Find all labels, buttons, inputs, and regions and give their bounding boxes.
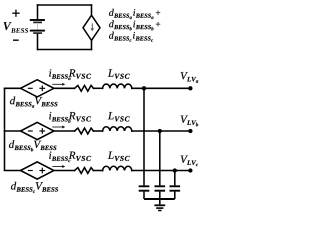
minus sign inside source b xyxy=(28,130,32,132)
minus sign of VBESS xyxy=(13,39,19,41)
plus sign of VBESS xyxy=(12,10,19,17)
plus sign inside source b xyxy=(40,130,45,132)
current arrow iBESSa xyxy=(52,83,65,86)
wire bus to source c xyxy=(5,170,21,172)
label dBESSa VBESS xyxy=(10,97,57,108)
dependent voltage source c (diamond) xyxy=(21,162,54,179)
label RVSC a xyxy=(69,69,91,78)
capacitor phase b xyxy=(155,186,166,199)
wire left side DC loop lower xyxy=(37,34,39,50)
inductor LVSC c xyxy=(103,166,132,170)
wire bottom of DC loop xyxy=(38,49,92,51)
wire left side DC loop upper xyxy=(37,5,39,19)
ground xyxy=(154,199,165,211)
label RVSC b xyxy=(69,112,91,121)
label dBESSb VBESS xyxy=(9,140,56,151)
label LVSC b xyxy=(108,112,130,121)
label VBESS xyxy=(4,22,29,33)
dependent voltage source b (diamond) xyxy=(21,122,54,139)
plus sign inside source c xyxy=(40,170,45,172)
wire top of DC loop xyxy=(38,4,92,6)
wire right side DC loop lower xyxy=(91,40,93,49)
label iBESSb xyxy=(49,112,70,123)
label iBESSc xyxy=(49,152,70,163)
resistor RVSC c xyxy=(75,168,94,174)
wire resistor to inductor a xyxy=(93,87,102,89)
capacitor phase a xyxy=(139,186,150,199)
current arrow iBESSc xyxy=(52,165,65,168)
label iBESSa xyxy=(49,69,70,80)
wire phase b drop to capacitor xyxy=(159,131,161,185)
arrow inside current source xyxy=(91,23,95,31)
wire inductor a to terminal xyxy=(132,87,191,89)
wire source b to resistor xyxy=(54,130,75,132)
junction node c xyxy=(173,168,177,172)
wire phase a drop to capacitor xyxy=(143,88,145,185)
wire inductor c to terminal xyxy=(132,170,191,172)
terminal node a xyxy=(188,86,192,90)
battery VBESS xyxy=(30,20,45,33)
label VLVc xyxy=(181,156,198,167)
resistor RVSC b xyxy=(75,128,94,134)
wire inductor b to terminal xyxy=(132,130,191,132)
dependent voltage source a (diamond) xyxy=(21,80,54,97)
label VLVa xyxy=(181,72,199,83)
label RVSC c xyxy=(69,152,91,161)
wire source c to resistor xyxy=(54,170,75,172)
left DC bus wire xyxy=(4,88,6,170)
current arrow iBESSb xyxy=(52,126,65,129)
junction node b xyxy=(158,129,162,133)
wire right side DC loop upper xyxy=(91,5,93,15)
inductor LVSC a xyxy=(103,84,132,88)
wire bus to source b xyxy=(5,130,21,132)
label dBESSc iBESSc xyxy=(109,32,153,42)
wire resistor to inductor b xyxy=(93,130,102,132)
label LVSC c xyxy=(108,152,130,161)
terminal node b xyxy=(188,129,192,133)
label dBESSa iBESSa + xyxy=(109,9,160,19)
minus sign inside source c xyxy=(28,170,32,172)
resistor RVSC a xyxy=(75,85,94,91)
wire bus to source a xyxy=(5,87,21,89)
label dBESSc VBESS xyxy=(11,182,58,193)
capacitor phase c xyxy=(170,186,181,199)
junction node a xyxy=(142,86,146,90)
wire capacitor common rail xyxy=(144,198,175,200)
wire resistor to inductor c xyxy=(93,170,102,172)
inductor LVSC b xyxy=(103,127,132,131)
dependent current source (diamond) xyxy=(83,15,100,40)
plus sign inside source a xyxy=(40,87,45,89)
minus sign inside source a xyxy=(28,87,32,89)
label LVSC a xyxy=(108,69,130,78)
label VLVb xyxy=(181,116,198,127)
terminal node c xyxy=(188,168,192,172)
label dBESSb iBESSb + xyxy=(109,20,160,30)
wire source a to resistor xyxy=(54,87,75,89)
wire phase c drop to capacitor xyxy=(174,171,176,186)
